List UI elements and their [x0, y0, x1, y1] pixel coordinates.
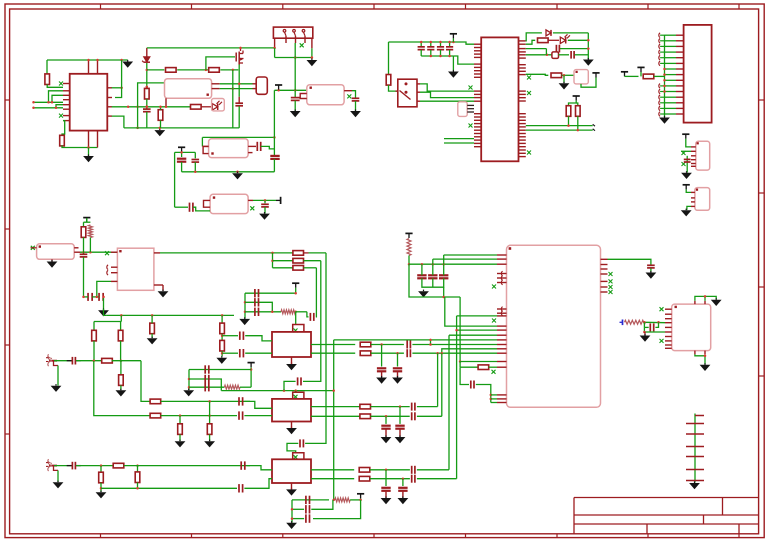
wire col 460	[459, 297, 461, 362]
wire lp3	[491, 402, 497, 404]
wire input A	[34, 101, 64, 103]
capacitor C17	[684, 159, 691, 162]
wire ch2 o2 to bus	[417, 415, 442, 417]
junction dot 460	[459, 360, 462, 363]
capacitor C26	[240, 332, 244, 340]
wire bus v2	[441, 353, 443, 416]
wire R4 to R5	[177, 69, 208, 71]
ground	[700, 363, 711, 371]
junction dot T13	[250, 368, 253, 371]
capacitor C19	[88, 293, 92, 301]
wire ch2 from bus	[303, 261, 321, 382]
ground	[286, 521, 297, 529]
wire ch1 rail1	[245, 292, 296, 294]
wire analog rail	[107, 314, 234, 316]
junction dots bias M3	[277, 89, 296, 92]
test pads header	[686, 416, 704, 481]
wire pin8 to R2	[62, 121, 65, 136]
wire out2 branch	[442, 349, 497, 353]
junction dot U3 bottom	[704, 355, 707, 358]
wire ch2 o2 cap drop	[385, 416, 387, 424]
wire A3 gnd stub	[291, 483, 293, 489]
ground	[376, 376, 387, 384]
resistor R15 squiggle	[88, 225, 92, 238]
wire J1 left leg	[274, 38, 276, 48]
ground	[96, 491, 107, 499]
junction dots VCC net	[239, 47, 276, 50]
title block	[574, 498, 759, 534]
supply T10	[683, 185, 690, 190]
resistor R36	[359, 468, 370, 473]
wire T7 feed	[625, 75, 639, 77]
wire S1 b	[420, 92, 474, 97]
capacitor C8	[192, 160, 200, 163]
resistor R33	[113, 463, 124, 468]
pin hooks J2	[659, 33, 665, 116]
pin stub M10 out1	[74, 247, 78, 249]
node cross J1	[300, 43, 304, 47]
module M5 link bracket	[204, 200, 211, 207]
wire C8 down	[194, 162, 196, 172]
wire R36 out	[370, 469, 410, 471]
LED D2	[212, 101, 222, 110]
pin hooks M11	[107, 265, 108, 275]
wire R32 out	[371, 415, 410, 417]
wire C7 down	[181, 162, 183, 172]
wire cap drop	[264, 200, 266, 203]
resistor R8	[386, 75, 391, 86]
wire ch1 jog	[307, 312, 309, 317]
ground	[381, 435, 392, 443]
wire M9 gnd	[687, 206, 691, 210]
junction dots inB	[179, 414, 211, 417]
pin stubs U3 left	[665, 309, 672, 348]
ground	[583, 58, 594, 66]
wire ch2 rail1	[189, 369, 251, 371]
module M2 around LED	[212, 99, 225, 111]
resistor R22	[220, 323, 225, 334]
junction dots out1 branch	[429, 339, 432, 346]
capacitor C54	[428, 264, 437, 278]
wire bias b	[444, 254, 497, 256]
wire ch2 railA drop	[141, 361, 150, 402]
wire ch3 o2 cap drop	[402, 479, 404, 486]
wire T9 feed	[686, 139, 691, 147]
wire fb rail3	[292, 518, 304, 520]
wire top rail R4	[147, 69, 165, 71]
pin stub M11 bottom	[154, 285, 163, 290]
capacitor C52	[306, 505, 310, 513]
resistor R41 squiggle	[625, 320, 646, 324]
wire R17 down	[120, 341, 122, 361]
wire fb bus	[333, 340, 335, 500]
wire osc path	[526, 54, 552, 56]
ground	[307, 58, 318, 66]
wire fb rail2	[292, 508, 304, 510]
LED D4	[560, 34, 570, 43]
wire C47 stub	[385, 492, 387, 498]
pin stub M3 out	[344, 90, 352, 92]
junction dot fb2	[359, 499, 362, 502]
junction dot ch1 in1	[221, 334, 224, 337]
wire C9 to pin	[193, 207, 210, 211]
wire pin 361	[460, 361, 497, 363]
capacitor C47	[381, 488, 390, 491]
pin stubs U2 left upper	[474, 44, 481, 77]
capacitor C7	[177, 159, 186, 162]
supply T15	[405, 233, 412, 238]
resistor R39 squiggle	[407, 239, 411, 256]
node cross A2	[294, 395, 298, 399]
resistor R10	[551, 73, 562, 78]
wire A1 out2	[311, 352, 355, 354]
wire ch2 cap left	[284, 381, 296, 390]
wire M12 out r	[608, 259, 651, 265]
wire div1 rail	[94, 321, 121, 323]
resistor R35	[135, 472, 140, 483]
resistor R31	[360, 404, 371, 409]
wire U1 out4	[112, 116, 124, 128]
junction dot out1	[120, 87, 123, 90]
capacitor C40	[412, 412, 415, 420]
resistor R2	[60, 135, 65, 146]
wire Vcc cap rail	[389, 42, 475, 44]
pin stubs U2 left lower	[474, 114, 481, 147]
pin stubs M11 left	[111, 252, 117, 281]
wire R11 down	[568, 116, 570, 125]
capacitor C55	[439, 264, 448, 278]
module M7	[574, 70, 588, 84]
wire R2 to gnd rail	[62, 145, 98, 147]
wire out1 straight	[412, 344, 497, 346]
capacitor C25	[310, 313, 313, 321]
wire cap fb	[460, 367, 469, 384]
node crosses M12 left	[492, 285, 496, 323]
node cross M12 fb	[492, 370, 496, 374]
node cross M3	[347, 94, 351, 98]
junction dots pull-ups	[567, 124, 579, 131]
junction dot loop left	[136, 127, 139, 129]
pin stub M1 out2b	[253, 88, 257, 90]
wire R9 to LED	[548, 39, 559, 41]
wire bus out2	[526, 129, 593, 131]
junction dots zener chain	[146, 69, 149, 88]
wire A2 out1	[311, 406, 360, 408]
junction dots out3	[127, 106, 139, 109]
wire bottom rail	[124, 127, 239, 129]
supply T9	[682, 134, 689, 139]
resistor R43	[293, 258, 304, 263]
wire C3 stub	[294, 90, 296, 97]
capacitor C6	[270, 156, 279, 159]
resistor R25	[360, 351, 371, 356]
wire ch1 to bus	[315, 268, 318, 317]
node cross U2b	[469, 124, 473, 128]
capacitor C50	[306, 496, 310, 504]
junction dot loop right	[273, 136, 276, 139]
junction dots left nest	[32, 101, 57, 109]
wire R37 out	[370, 478, 410, 480]
resistor R3	[145, 88, 150, 99]
wire C21 out	[76, 360, 102, 362]
wire bus v3	[448, 335, 450, 470]
capacitor C24	[255, 308, 259, 316]
capacitor C31	[393, 368, 402, 371]
wire ch3 o1 cap drop	[385, 470, 387, 486]
wire T10 feed	[686, 189, 691, 192]
wire caps rail c	[102, 297, 104, 310]
wire C3 down	[294, 101, 296, 111]
wire end marks	[593, 124, 595, 130]
wire fan row3	[273, 267, 293, 269]
pin stub M5 out	[248, 199, 253, 201]
capacitor C28	[407, 341, 410, 349]
module M12	[507, 245, 601, 407]
wire pin 335	[449, 334, 497, 336]
supply T11	[83, 218, 90, 223]
wire zener to node	[146, 63, 148, 89]
wire ch1 in2	[222, 352, 238, 354]
wire left drop	[388, 42, 390, 75]
wire cap gnd bus	[421, 55, 453, 57]
wire Rc link	[221, 315, 223, 323]
resistor R20	[119, 375, 124, 386]
crystal Y1	[256, 77, 267, 94]
wire ch2 inA b	[244, 401, 272, 408]
wire out1 cap drop	[381, 345, 383, 367]
connector J1 pins	[283, 30, 305, 44]
wire ch3 inB b	[244, 479, 272, 489]
wire C31 stub	[397, 372, 399, 377]
supply T13	[248, 363, 255, 368]
wire C10 down	[264, 207, 266, 213]
wire R6 up	[160, 107, 162, 110]
pin stubs M12 left	[497, 255, 507, 403]
wire res path	[526, 40, 535, 44]
wire bus out1	[526, 125, 593, 127]
wire Q1 col down	[238, 106, 240, 128]
node cross A1	[294, 329, 298, 333]
resistor R1	[45, 74, 50, 85]
capacitor C39	[395, 426, 404, 429]
wire VCC net	[147, 47, 275, 49]
wire A2 gnd stub	[291, 422, 293, 429]
wire R20 down	[120, 385, 122, 390]
junction dot bias	[180, 151, 183, 154]
capacitor C34	[205, 383, 209, 391]
resistor R37	[359, 476, 370, 481]
wire C16 out	[575, 54, 589, 56]
capacitor C51	[306, 514, 310, 522]
wire R3 down	[146, 99, 148, 109]
junction dot bottom rail	[87, 146, 90, 149]
ground	[398, 496, 409, 504]
wire A1 gnd stub	[291, 357, 293, 364]
wire A3 out1	[311, 469, 354, 471]
wire R20 col	[120, 361, 122, 375]
capacitor C37	[239, 411, 243, 419]
wire M1 bottom pin	[165, 98, 167, 107]
wire M11 bias	[97, 281, 111, 297]
pin stubs U1 top	[89, 60, 98, 74]
capacitor C32	[205, 365, 209, 373]
module M1	[165, 79, 212, 99]
wire M3 out	[352, 91, 356, 99]
wire C57 down	[650, 268, 652, 272]
wire R29 down	[179, 434, 181, 441]
wire C5 right	[261, 146, 275, 149]
wire col 274 upper	[273, 90, 275, 137]
junction dot ch1 t	[294, 292, 297, 295]
wire T11 split	[84, 221, 91, 223]
pin stubs M6	[467, 105, 474, 112]
wire left loop	[138, 83, 165, 128]
wire bias rail c	[409, 263, 497, 265]
wire pin 315.9	[457, 315, 497, 317]
wire ch3 from bus	[305, 253, 326, 444]
wire col A	[232, 70, 234, 128]
wire R19 out	[112, 360, 141, 362]
wire C6 down	[273, 159, 275, 172]
wire R8 to switch	[389, 85, 398, 91]
wire input B	[34, 107, 64, 109]
wire S1 c	[420, 100, 474, 102]
wire R10 to M7	[562, 74, 574, 76]
ground	[154, 129, 165, 137]
wire C43 out	[76, 465, 114, 467]
node cross U2a	[469, 86, 473, 90]
wire ch2 inB b	[244, 415, 272, 417]
wire ch2 railB drop	[94, 361, 150, 416]
wire R18 down	[151, 334, 153, 338]
wire U2 in1	[444, 138, 474, 140]
pin stubs U1 left	[63, 84, 70, 121]
resistor R23	[220, 340, 225, 351]
wire VCC top	[47, 59, 128, 61]
junction dot gnd rail	[159, 127, 162, 129]
module M10	[37, 244, 75, 259]
wire gnd stub	[88, 148, 90, 157]
ground	[53, 481, 64, 489]
capacitor C38	[412, 403, 415, 411]
resistor R4	[166, 68, 177, 73]
opamp A3 top bracket	[293, 453, 304, 460]
wire C41 stub	[385, 430, 387, 437]
ground	[232, 172, 243, 180]
wire R30 down	[209, 434, 211, 441]
node cross M10 in	[31, 246, 37, 250]
wire bus link	[453, 56, 474, 64]
capacitor C2	[235, 103, 243, 106]
pin stub M4 out1	[248, 145, 256, 147]
wire bias a drop	[432, 259, 434, 264]
wire ch2 bracket rail	[221, 390, 333, 392]
supply T7	[621, 72, 628, 77]
wire A3 out2	[311, 478, 354, 480]
IC U2	[481, 37, 518, 161]
wire LED out	[568, 39, 589, 41]
wire caps gnd mid	[432, 278, 434, 287]
capacitor C35	[298, 377, 301, 385]
wire R35 down	[137, 482, 139, 488]
capacitor C45	[239, 484, 243, 492]
wire fan col	[272, 253, 274, 268]
junction dot ch3	[100, 487, 103, 490]
wire R5 right	[220, 69, 238, 71]
wire M10 gnd stub	[51, 259, 53, 261]
capacitor C36	[239, 397, 243, 405]
junction dots ch1 rail3	[271, 311, 297, 314]
resistor R16	[92, 330, 97, 341]
wire fb left col	[291, 500, 293, 523]
junction dot R10 gnd	[563, 74, 566, 77]
wire M1 out1	[220, 83, 253, 85]
wire J1 left col	[274, 48, 276, 58]
wire net 339	[334, 339, 497, 341]
node cross pin7	[59, 114, 63, 118]
capacitor C4	[352, 98, 360, 101]
wire ch3 o2 to bus	[417, 478, 457, 480]
wire out2 straight	[412, 352, 497, 354]
ground	[183, 389, 194, 397]
resistor R7	[191, 105, 202, 110]
wire U3 pin3	[644, 327, 665, 332]
wire R40 out	[489, 366, 497, 368]
wire res fb	[460, 366, 478, 368]
supply T2	[178, 147, 185, 152]
wire M5 out	[253, 199, 276, 201]
wire ch1 in1	[222, 335, 238, 337]
ground	[147, 337, 158, 345]
wire caps rail a	[84, 296, 89, 298]
wire S1 a	[420, 84, 474, 91]
resistor R6	[158, 110, 163, 121]
junction dots analog rail	[120, 314, 223, 317]
node cross M11 in	[105, 251, 109, 255]
wire ch3 o1 to bus	[417, 469, 449, 471]
resistor R29	[178, 424, 183, 435]
wire T14 stem	[360, 498, 362, 500]
ground	[175, 440, 186, 448]
junction dot bias node	[408, 263, 411, 266]
wire M8 bus	[682, 151, 688, 169]
capacitor C1	[143, 109, 151, 112]
wire U3 bottom loop	[695, 354, 705, 364]
resistor R44	[293, 266, 304, 271]
wire T4 stub	[452, 38, 454, 42]
wire div1 legs	[93, 322, 95, 331]
wire left drop	[174, 152, 176, 207]
junction dots bottom rail M4	[194, 171, 239, 174]
capacitor C48	[412, 475, 415, 483]
node cross pin1	[59, 82, 63, 86]
junction dot fan	[271, 252, 274, 255]
pin stub M1 out1b	[253, 83, 257, 85]
capacitor C53	[417, 264, 426, 278]
capacitor C42	[300, 439, 303, 447]
wire R31 out	[371, 406, 410, 408]
wire ch2 t rail top	[221, 352, 223, 354]
capacitor C9	[190, 203, 193, 212]
wire R41 out	[645, 321, 665, 323]
input mark blue	[620, 320, 623, 326]
wire R43 out	[304, 260, 321, 262]
junction dots U3 in	[643, 321, 660, 324]
wire R22 R23	[221, 334, 223, 341]
wire ch3 inB	[101, 487, 237, 489]
module M6	[458, 102, 467, 117]
wire to R1	[46, 60, 48, 74]
